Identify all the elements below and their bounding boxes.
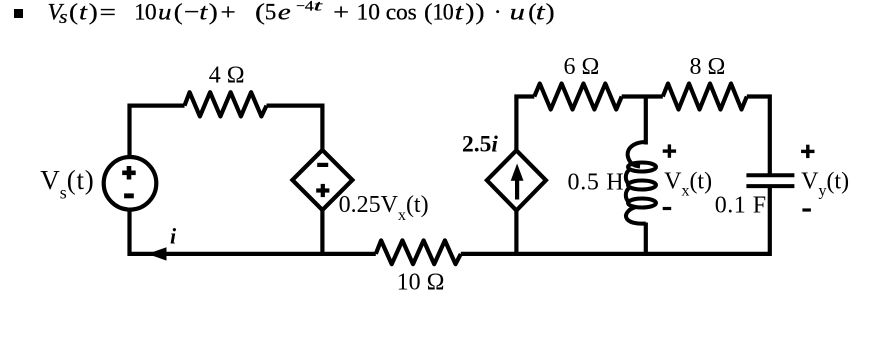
svg-text:0.25Vx(t): 0.25Vx(t) [339, 192, 429, 224]
plus polarity for Vx [663, 144, 676, 157]
resistor R2 6ohm zigzag [534, 84, 621, 110]
svg-text:−: − [184, 0, 200, 26]
plus sign in Vs circle [122, 166, 136, 180]
minus polarity for Vx [663, 207, 672, 210]
plus sign in dependent source diamond [316, 184, 329, 197]
minus sign in dependent source diamond [317, 163, 328, 167]
svg-text:=: = [100, 0, 117, 26]
svg-text:+: + [221, 0, 236, 26]
svg-text:Vx(t): Vx(t) [664, 168, 712, 199]
svg-text:6 Ω: 6 Ω [563, 54, 599, 80]
svg-text:0: 0 [443, 0, 454, 26]
svg-text:): ) [546, 0, 555, 26]
svg-text:t: t [455, 0, 464, 26]
svg-text:0.1 F: 0.1 F [715, 192, 767, 218]
svg-text:Vs(t): Vs(t) [40, 165, 94, 203]
svg-text:5: 5 [265, 0, 277, 26]
dependent voltage source diamond [292, 150, 352, 210]
svg-text:cos: cos [386, 0, 417, 26]
bottom rail right and capacitor branch lower wire [461, 186, 770, 254]
wire top-right corner to dependent source [267, 106, 323, 151]
svg-text:s: s [59, 7, 68, 28]
svg-text:(: ( [255, 0, 265, 26]
minus polarity for Vy [802, 208, 811, 211]
top rail middle segment [622, 94, 663, 98]
svg-text:u: u [158, 0, 172, 26]
wire current source to top rail [516, 97, 534, 152]
wire inductor branch top [644, 97, 648, 145]
svg-text:8 Ω: 8 Ω [689, 54, 725, 80]
svg-text:t: t [314, 0, 324, 15]
minus sign in Vs circle [124, 193, 134, 198]
svg-text:): ) [209, 0, 218, 26]
inductor L1 0.5H coil [626, 142, 656, 224]
svg-text:(: ( [69, 0, 78, 26]
svg-text:0.5 H: 0.5 H [568, 170, 625, 196]
svg-text:u: u [510, 0, 526, 26]
wire below dependent source [320, 209, 324, 254]
svg-text:1: 1 [134, 0, 145, 26]
svg-text:i: i [170, 224, 177, 249]
wire below current source [514, 210, 518, 254]
voltage source Vs circle [104, 157, 157, 210]
svg-text:+: + [333, 0, 349, 26]
arrow inside current source [511, 164, 524, 200]
svg-text:4 Ω: 4 Ω [209, 62, 245, 88]
svg-text:·: · [494, 0, 502, 26]
svg-text:): ) [476, 0, 485, 26]
svg-text:2.5i: 2.5i [462, 132, 498, 158]
wire left-top corner: source to 4-ohm [130, 106, 185, 157]
equation text [48, 0, 555, 28]
svg-text:): ) [89, 0, 98, 26]
svg-text:): ) [465, 0, 474, 26]
dependent current source diamond [487, 150, 546, 210]
wire below Vs source to bottom rail [130, 210, 376, 254]
svg-text:t: t [536, 0, 545, 26]
bullet of equation [14, 9, 23, 18]
svg-text:(: ( [424, 0, 433, 26]
svg-text:Vy(t): Vy(t) [801, 168, 849, 199]
svg-text:e: e [278, 0, 291, 26]
svg-text:t: t [199, 0, 208, 26]
svg-text:−: − [296, 0, 305, 15]
resistor R1 4ohm zigzag [185, 92, 267, 116]
resistor R4 8ohm zigzag [663, 84, 747, 110]
resistor R3 10ohm zigzag [376, 240, 461, 264]
svg-text:0: 0 [145, 0, 157, 26]
wire top-right corner to capacitor [747, 97, 770, 176]
svg-text:10: 10 [357, 0, 381, 26]
wire inductor branch bottom [644, 223, 648, 254]
plus polarity for Vy [801, 145, 814, 158]
svg-text:10 Ω: 10 Ω [397, 269, 445, 295]
capacitor C1 0.1F plates [746, 175, 794, 186]
svg-text:(: ( [174, 0, 183, 26]
current arrow i on bottom wire [148, 247, 167, 260]
svg-text:t: t [79, 0, 88, 26]
